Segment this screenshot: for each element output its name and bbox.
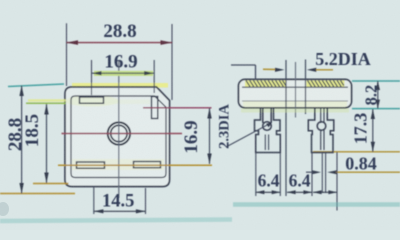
hatching left band — [245, 81, 286, 87]
body outline front — [65, 87, 170, 187]
centerline horizontal red — [62, 133, 183, 135]
bottom dim extension: far right — [336, 152, 338, 211]
inner face outline front — [71, 96, 166, 178]
faint teal smear bottom left — [0, 220, 232, 222]
mounting hole inner — [111, 125, 127, 141]
hole wall right — [305, 60, 307, 115]
left pin hole 2.3DIA — [263, 122, 272, 131]
leader 2.3DIA — [226, 123, 271, 147]
right pin — [308, 108, 334, 153]
body interior tint — [65, 87, 170, 187]
dim 28.8 top: dimension line — [67, 42, 173, 44]
mounting hole outer — [108, 122, 130, 144]
dim 5.2DIA: right part — [307, 68, 317, 72]
faint teal band bottom right — [233, 202, 400, 207]
terminal slot bottom-right — [134, 162, 161, 168]
dim 14.5: extension lines — [93, 186, 95, 214]
terminal slot top-right vertical — [152, 97, 158, 119]
body side inner top line — [242, 86, 348, 88]
side top teal extension — [352, 80, 400, 82]
dim 14.5: dimension line — [94, 210, 146, 212]
terminal slot top-left — [80, 97, 104, 103]
dim 28.8 top: arrowheads — [67, 40, 79, 45]
body side: inner bottom highlight — [243, 101, 347, 107]
hole centerline — [295, 62, 297, 118]
highlight yellow top band — [72, 83, 168, 88]
dim 28.8 left: bottom olive extension — [0, 193, 75, 195]
third span arrows — [313, 191, 337, 193]
left pin blade inside block — [264, 135, 266, 151]
dim 8.2: dimension line — [377, 81, 379, 109]
dim 6.4 right: line and arrows — [287, 191, 312, 193]
corner smudge — [0, 202, 9, 216]
dim 16.9 top: extension lines — [91, 60, 93, 95]
dim 28.8 left: dimension line — [21, 86, 23, 194]
bottom dim extension: left block left — [255, 153, 257, 196]
dim 18.5: top green extension — [26, 102, 66, 104]
side bottom teal extension — [352, 108, 400, 110]
bottom dim extension: left block right — [279, 153, 281, 196]
dim 17.3: olive bottom extension — [313, 151, 400, 153]
body side interior tint — [239, 79, 352, 107]
dim 18.5: bottom olive extension — [33, 183, 69, 185]
dim 28.8 left: top teal extension — [8, 84, 64, 87]
dim 28.8 top: extension lines — [66, 23, 68, 86]
bottom slots centerline olive — [58, 164, 212, 166]
dim 16.9 top: arrowheads — [92, 71, 102, 75]
highlight yellow bottom slots band — [72, 159, 164, 170]
dim 6.4 left: line and arrows — [256, 191, 280, 193]
dim 16.9 right: dimension line — [209, 108, 211, 164]
body side outline — [239, 79, 352, 107]
hatching right band — [307, 81, 345, 87]
dim 16.9 top: green highlight — [94, 71, 153, 76]
hole wall left — [285, 60, 287, 196]
left pin — [255, 108, 281, 153]
dim 18.5: dimension line — [46, 104, 48, 183]
body side inner bottom line — [242, 100, 348, 102]
bottom dim extension: right block left — [311, 153, 313, 196]
right slot centerline red — [143, 107, 212, 109]
dim 5.2DIA: left part — [231, 64, 256, 66]
sub-body green tint — [241, 109, 349, 113]
dim 17.3: dimension line — [372, 109, 374, 152]
dim 16.9 top: dimension line — [92, 72, 155, 74]
terminal slot bottom-left — [77, 162, 105, 168]
right pin blade edges — [321, 153, 323, 194]
right pin hole — [317, 122, 326, 131]
right pin blade seen through — [320, 108, 322, 123]
centerline vertical — [118, 61, 120, 198]
dim 0.84: left arrow — [306, 171, 317, 173]
dim 0.84: right arrow with olive tail — [327, 170, 337, 174]
